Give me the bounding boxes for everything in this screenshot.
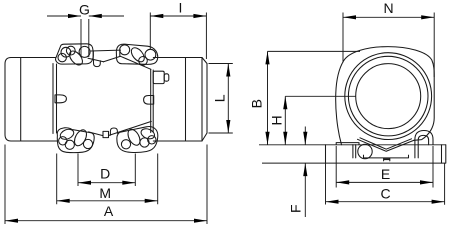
center notch sides — [384, 158, 390, 161]
dimension A right arrow — [194, 219, 207, 223]
dimension D extension lines — [78, 154, 135, 187]
housing top edge left segment — [88, 58, 104, 62]
dimension D left arrow — [78, 181, 91, 185]
dimension L line — [227, 64, 229, 134]
dimension I line — [150, 15, 206, 17]
dimension G right tail — [89, 15, 124, 17]
weight TR tilted ellipse — [129, 45, 147, 64]
base bottom line — [262, 162, 446, 164]
dimension G left tail — [47, 15, 81, 17]
clamp tray bottom line — [364, 155, 409, 158]
dimension M line — [57, 200, 158, 202]
weight BL wide ellipse — [59, 127, 75, 141]
base plate right inner edge — [441, 145, 443, 163]
dimension G right arrow — [89, 14, 102, 18]
housing left clamp tab — [55, 95, 66, 103]
top center hanging U tab — [94, 60, 101, 67]
dimension A line — [5, 220, 207, 222]
weight TL circle 2 — [66, 46, 75, 55]
weight TR circle 1 — [120, 45, 130, 55]
motor body bottom edge right segment — [153, 140, 202, 142]
dimension C left arrow — [326, 200, 339, 204]
base top line — [259, 144, 446, 146]
dimension I left arrow — [150, 14, 163, 18]
dimension H bottom arrow — [283, 132, 287, 145]
right end cap seam — [185, 58, 187, 142]
svg-text:N: N — [384, 0, 394, 16]
dimension H top extension — [285, 95, 356, 97]
dimension B top arrow — [265, 51, 269, 64]
weight BL circle 1 — [59, 137, 67, 145]
dimension N line — [343, 16, 434, 18]
dimension F lower tail — [304, 163, 306, 217]
svg-text:G: G — [79, 2, 90, 18]
dimension I right arrow — [193, 14, 206, 18]
dimension G extension lines — [81, 19, 89, 57]
weight TL tilted ellipse — [67, 49, 85, 68]
dimension I extension lines — [150, 13, 206, 60]
dimension F upper tail — [304, 127, 306, 145]
lifting eye outer — [415, 131, 433, 158]
base left tab step — [336, 143, 359, 145]
dimension A left arrow — [5, 219, 18, 223]
right chamfer start line — [201, 58, 203, 142]
housing top edge rising segment — [104, 56, 121, 62]
svg-text:A: A — [104, 203, 114, 219]
top bridge block top — [91, 49, 121, 52]
housing bottom edge left segment — [89, 132, 103, 136]
dimension N left arrow — [343, 15, 356, 19]
dimension C right arrow — [432, 200, 445, 204]
svg-text:F: F — [288, 204, 304, 213]
motor body top edge right segment — [153, 57, 202, 59]
dimension F up arrow — [303, 163, 307, 176]
svg-text:E: E — [381, 166, 390, 182]
eccentric weight bottom-left outline — [57, 128, 94, 153]
dimension B top extension — [268, 50, 361, 52]
bottom center key rect — [103, 131, 109, 137]
dimension L top arrow — [226, 64, 230, 77]
dimension E extension lines — [336, 146, 433, 188]
middle circle — [348, 56, 428, 136]
dimension H top arrow — [283, 96, 287, 109]
dimension L bottom arrow — [226, 120, 230, 133]
outer circle — [345, 53, 432, 140]
cable gland cap — [164, 74, 169, 81]
lifting eye inner slot — [418, 135, 428, 158]
dimension B bottom arrow — [265, 132, 269, 145]
housing right clamp tab — [144, 96, 154, 105]
dimension G left arrow — [68, 14, 81, 18]
dimension C extension lines — [326, 163, 445, 205]
dimension C line — [326, 201, 445, 203]
svg-text:L: L — [211, 94, 227, 102]
dimension E left arrow — [336, 180, 349, 184]
right end chamfer bottom — [202, 133, 207, 141]
dimension M extension lines — [57, 154, 158, 205]
svg-text:C: C — [381, 186, 391, 202]
housing left edge (double line) — [53, 64, 57, 134]
housing right edge (double line) — [151, 69, 154, 132]
right end face — [206, 64, 208, 134]
right end chamfer top — [202, 58, 207, 64]
weight BR wide ellipse — [140, 127, 156, 141]
top bridge block left side — [92, 51, 94, 59]
weight TL circle 4 — [79, 46, 90, 57]
weight BL circle 3 — [83, 139, 92, 148]
weight TL circle 1 — [61, 47, 71, 57]
dimension M left arrow — [57, 199, 70, 203]
svg-text:M: M — [99, 185, 111, 201]
weight BL steep ellipse — [72, 128, 89, 148]
dimension L extension lines — [209, 64, 233, 134]
dimension H line — [284, 96, 286, 144]
dimension M right arrow — [145, 199, 158, 203]
base plate left edge — [325, 145, 327, 163]
left end cap seam — [20, 58, 22, 142]
dimension D line — [78, 182, 135, 184]
svg-text:B: B — [248, 99, 264, 108]
eccentric weight top-right outline — [116, 44, 157, 64]
svg-text:D: D — [100, 166, 110, 182]
weight BR circle 1 — [121, 140, 130, 149]
base plate right edge — [445, 145, 447, 163]
dimension A extension lines — [5, 145, 207, 225]
weight BL circle 2 — [65, 140, 74, 149]
weight BR steep ellipse — [126, 127, 143, 147]
dimension N right arrow — [421, 15, 434, 19]
top bridge block right side — [119, 50, 121, 56]
svg-text:I: I — [178, 0, 182, 16]
motor body top edge left segment — [11, 57, 56, 59]
dimension E line — [336, 181, 433, 183]
dimension N extension lines — [343, 13, 434, 78]
motor body bottom edge left segment — [11, 140, 58, 142]
eccentric weight top-left outline — [56, 44, 94, 64]
dimension B line — [267, 51, 269, 144]
weight BR circle 2 — [140, 138, 149, 147]
cable gland body — [153, 71, 164, 83]
housing top edge descending segment — [121, 56, 151, 69]
svg-text:H: H — [268, 115, 284, 125]
housing bottom edge rising segment — [109, 121, 151, 135]
clamp bolt circle — [358, 144, 372, 158]
weight TR circle 3 — [139, 57, 148, 66]
weight TR circle 2 — [145, 49, 156, 60]
bottom wedge inner — [360, 138, 412, 149]
bottom center U tab — [110, 128, 117, 135]
housing outline — [336, 47, 435, 145]
motor body left face — [5, 58, 11, 142]
weight TL circle 3 — [58, 53, 66, 61]
dimension D right arrow — [122, 181, 135, 185]
weight BR circle 3 — [148, 136, 156, 144]
bottom wedge outer — [358, 139, 415, 151]
clamp left wall pair — [353, 145, 356, 158]
eccentric weight bottom-right outline — [117, 127, 158, 153]
center notch mark — [384, 158, 390, 160]
dimension F down arrow — [303, 132, 307, 145]
bore circle — [356, 64, 421, 129]
dimension E right arrow — [420, 180, 433, 184]
